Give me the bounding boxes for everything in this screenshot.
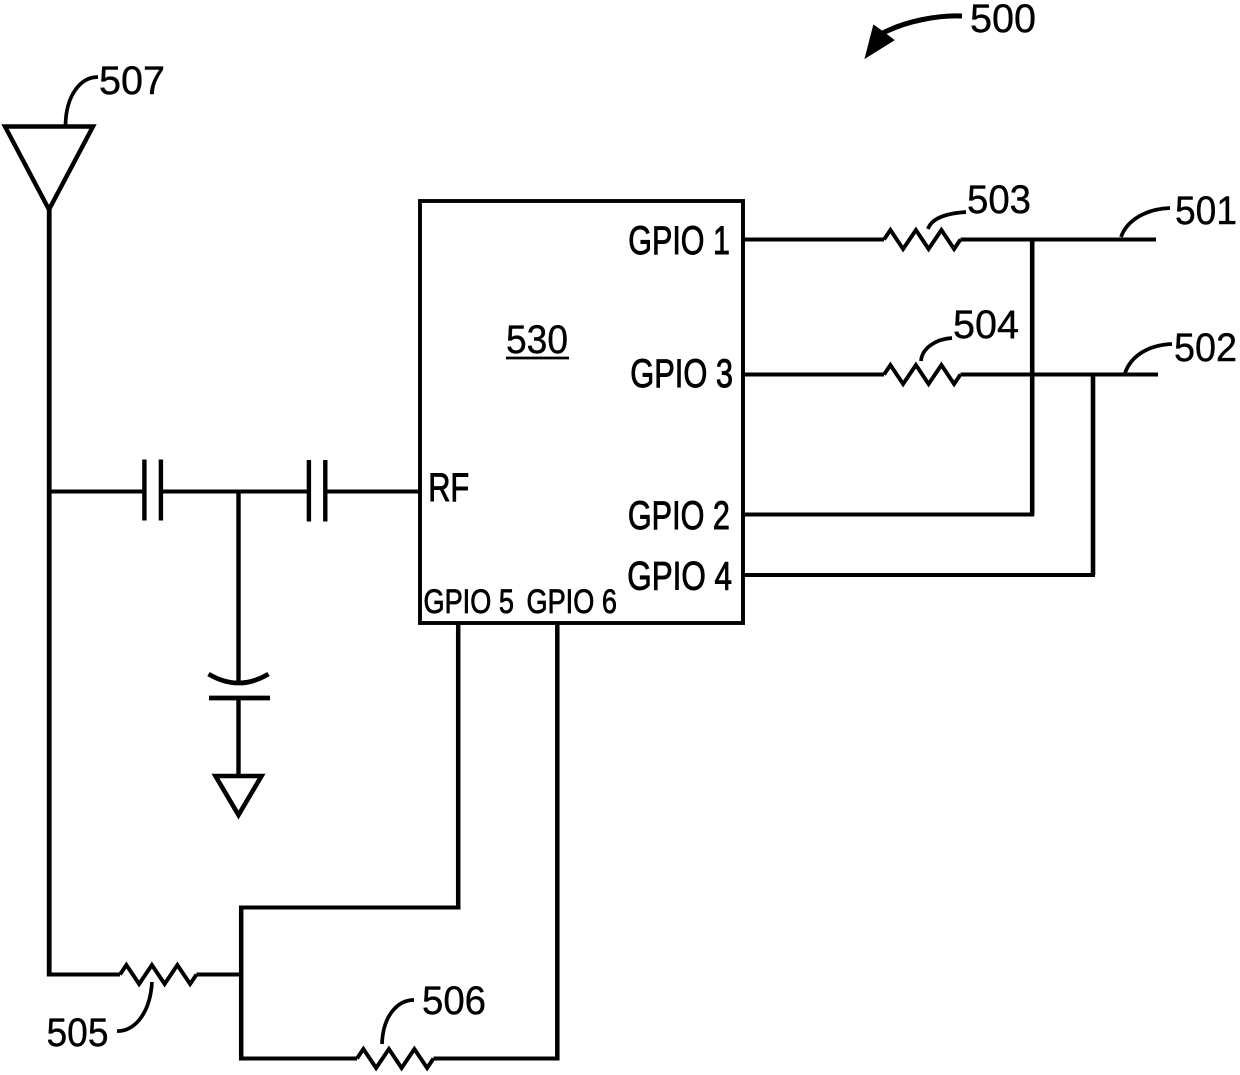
svg-text:501: 501 [1175, 189, 1237, 233]
svg-text:504: 504 [953, 303, 1019, 347]
leader 507 [66, 77, 99, 125]
wire GPIO6 pin down [555, 623, 560, 1061]
wire node 501 down to GPIO2 [1030, 240, 1035, 515]
wire GPIO5 horizontal to junction [239, 906, 460, 910]
wire bottom left to resistor R506 [241, 1057, 357, 1061]
wire C3 to ground [236, 698, 240, 778]
wire antenna bottom to resistor R505 [47, 973, 120, 977]
pin label GPIO 6 [527, 583, 617, 621]
wire node 502 down to GPIO4 [1091, 375, 1096, 576]
label 507 [99, 59, 165, 103]
svg-text:530: 530 [506, 318, 568, 362]
svg-text:500: 500 [970, 0, 1036, 41]
capacitor C2 (series) [309, 460, 325, 522]
capacitor C1 (series) [144, 460, 161, 521]
leader 503 [928, 212, 966, 229]
antenna 507 [5, 127, 93, 210]
label 530 [506, 318, 569, 362]
wire GPIO1 pin to resistor R503 [743, 238, 884, 242]
label 505 [47, 1011, 109, 1055]
label 501 [1175, 189, 1237, 233]
leader 506 [382, 1000, 414, 1044]
label 504 [953, 303, 1019, 347]
wire junction vertical [239, 906, 244, 1061]
svg-text:503: 503 [967, 178, 1031, 222]
leader 502 [1125, 344, 1172, 373]
label 506 [422, 979, 486, 1023]
pin label GPIO 2 [628, 494, 730, 538]
leader 505 [117, 982, 152, 1031]
label 503 [967, 178, 1031, 222]
wire antenna vertical [47, 209, 52, 977]
resistor 506 [357, 1049, 434, 1068]
wire antenna to RF caps [47, 490, 144, 494]
wire GPIO2 pin [743, 513, 1034, 517]
wire GPIO5 pin down [456, 623, 461, 910]
svg-text:GPIO 6: GPIO 6 [527, 583, 617, 621]
pin label GPIO 3 [630, 352, 733, 396]
pin label GPIO 5 [424, 583, 514, 621]
wire C1 to node A [161, 490, 309, 494]
IC U1 box 530 [420, 201, 743, 623]
svg-text:GPIO 2: GPIO 2 [628, 494, 730, 538]
pin label GPIO 1 [628, 219, 730, 263]
wire node A down to shunt capacitor [236, 490, 240, 685]
svg-text:507: 507 [99, 59, 165, 103]
svg-text:502: 502 [1174, 326, 1237, 370]
resistor 503 [884, 230, 961, 249]
leader 504 [921, 338, 952, 361]
wire R503 to line 501 [961, 238, 1157, 242]
svg-text:505: 505 [47, 1011, 109, 1055]
svg-text:GPIO 3: GPIO 3 [630, 352, 733, 396]
pin label RF [428, 466, 469, 510]
svg-text:506: 506 [422, 979, 486, 1023]
wire R505 to junction [197, 973, 244, 977]
wire GPIO3 pin to resistor R504 [743, 373, 884, 377]
arrow 500 [866, 16, 962, 57]
svg-text:GPIO 5: GPIO 5 [424, 583, 514, 621]
svg-text:GPIO 1: GPIO 1 [628, 219, 730, 263]
leader 501 [1121, 208, 1170, 237]
label 502 [1174, 326, 1237, 370]
resistor 504 [884, 365, 961, 384]
capacitor C3 (shunt, curved plate) [209, 674, 271, 698]
ground [216, 776, 262, 815]
wire R504 to line 502 [961, 373, 1159, 377]
pin label GPIO 4 [627, 555, 732, 599]
svg-text:RF: RF [428, 466, 469, 510]
wire GPIO4 pin [743, 573, 1095, 577]
svg-text:GPIO 4: GPIO 4 [627, 555, 732, 599]
wire C2 to RF pin [325, 490, 420, 494]
resistor 505 [120, 965, 197, 984]
label 500 [970, 0, 1036, 41]
wire R506 to GPIO6 [434, 1057, 560, 1061]
